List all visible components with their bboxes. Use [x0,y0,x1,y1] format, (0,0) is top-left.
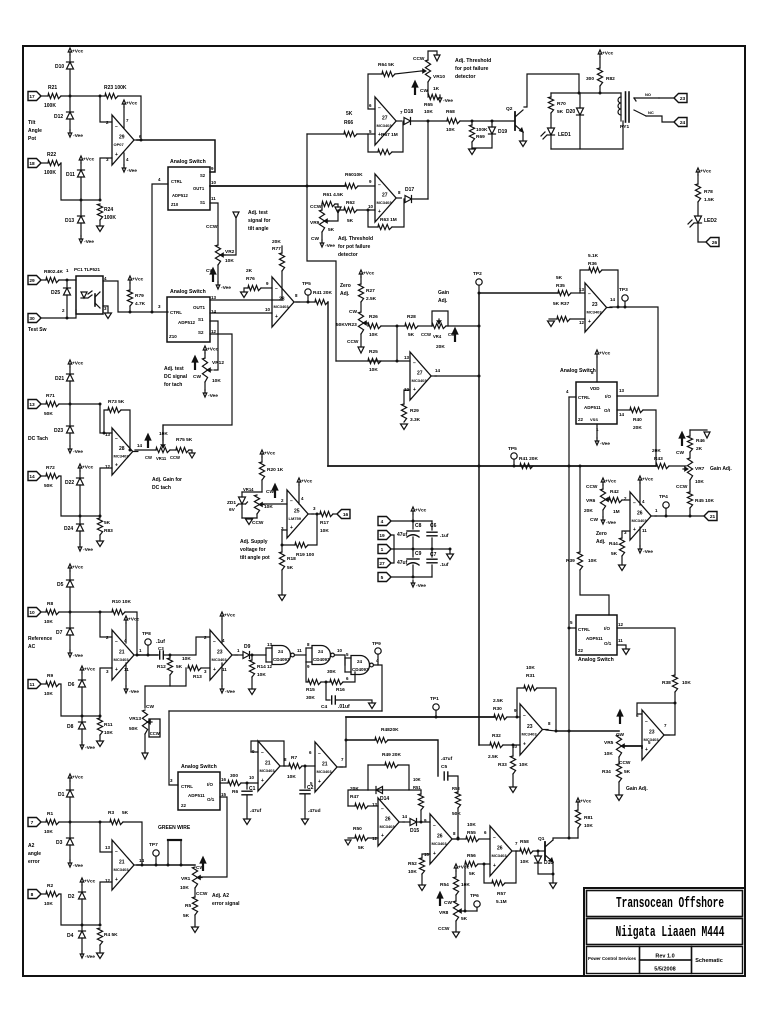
svg-text:10: 10 [29,610,35,616]
diode D12 [54,112,74,120]
label CCW VR10 [413,56,425,62]
svg-text:−: − [213,639,216,645]
op-amp 23 MC3403 a [512,704,551,755]
opto transistor [95,292,100,308]
resistor R35 [556,275,571,296]
svg-text:+: + [413,387,416,393]
svg-text:O/1: O/1 [604,641,612,646]
title text Niigata Liaaen M444 [616,924,725,941]
wire R37 to pin12 [570,318,585,320]
wire R60 to pin9 [358,185,375,187]
svg-text:D2: D2 [68,894,75,900]
svg-text:12: 12 [618,622,624,627]
wire R69 stem [471,121,473,125]
junction R82 rail [599,92,602,95]
svg-text:R75 5K: R75 5K [176,437,193,443]
svg-text:R7: R7 [291,755,297,761]
svg-text:10K: 10K [604,751,613,757]
svg-text:GREEN WIRE: GREEN WIRE [158,825,191,831]
rail VR14 bottom [242,517,257,519]
svg-text:CW: CW [145,455,152,460]
resistor R23 [104,85,127,99]
op-amp 26 MC3403 right [624,492,658,540]
label CW VR1 [196,865,204,871]
svg-text:−: − [115,849,118,855]
wire VR13 gnd [144,734,146,752]
wire C2 gnd [304,794,306,818]
svg-text:Adj. Threshold: Adj. Threshold [338,236,373,242]
svg-text:C3: C3 [158,646,164,651]
diode D10 [55,62,74,70]
wire D22 bottom [79,485,81,516]
svg-text:13: 13 [29,402,35,408]
wire D5 stem [69,571,71,580]
svg-text:+Vcc: +Vcc [72,49,84,55]
svg-text:R21: R21 [48,85,57,91]
svg-text:CTRL: CTRL [181,784,193,789]
svg-text:ADP512: ADP512 [178,320,196,325]
resistor R34 [602,764,631,782]
title row 2 box [587,919,743,945]
svg-text:22: 22 [181,803,187,808]
svg-text:47uf: 47uf [397,560,408,566]
label CW VR10 [420,88,428,94]
svg-text:Zero: Zero [340,283,351,289]
connector 10 [28,608,41,617]
junction bus TP2v [478,465,481,468]
svg-text:14: 14 [435,368,441,373]
wire conn19 stub [391,535,394,549]
wire R10 loop [100,611,112,613]
connector 27 [378,559,391,568]
junction Q2 rail [578,92,581,95]
wire R75 gnd [189,450,192,452]
junction R14 [251,654,254,657]
wire Q1 emitter [552,862,554,882]
capacitor C3 .1uf [156,639,165,659]
op-amp 23 MC3403 br [636,710,670,760]
wire R83 gnd [99,535,101,541]
junction D25 bottom [66,317,69,320]
svg-text:-Vee: -Vee [73,863,83,869]
junction C8 top [412,520,415,523]
svg-text:MC3403: MC3403 [317,769,333,774]
wire C6 bottom [431,538,433,549]
op-amp 21 MC3403 c [252,741,287,791]
wire OUT1b to pin10 [210,312,272,314]
svg-text:MC3403: MC3403 [632,518,648,523]
title cell company [587,947,640,974]
svg-text:1: 1 [381,547,384,553]
svg-text:−: − [115,436,118,442]
svg-text:21: 21 [322,762,328,768]
resistor R55 [466,822,479,842]
wire R54 stem [455,871,457,877]
svg-text:DC signal: DC signal [164,374,188,380]
resistor R66 [344,111,357,137]
wire R55 to pin6 [479,838,490,840]
node R11 row [99,715,102,718]
ground R34 [616,795,623,801]
svg-text:10K: 10K [520,859,529,865]
resistor R48 [375,727,399,743]
svg-text:+: + [523,742,526,748]
LED LED2 [695,216,718,224]
svg-text:R36: R36 [588,261,597,267]
wire R17 to conn16 [333,513,337,515]
svg-text:-Vee: -Vee [83,547,93,553]
node A2 tap [99,821,102,824]
svg-text:R2: R2 [47,883,53,889]
wire R47 from pot [348,790,368,806]
svg-text:R34: R34 [602,769,611,775]
svg-text:R11: R11 [104,722,113,728]
LED1 arrows [541,132,547,139]
junction R48 row [345,739,348,742]
svg-text:−: − [115,639,118,645]
power -Vee VR9 [320,240,335,249]
resistor R2 [44,883,59,907]
power -Vee D3 [68,860,83,869]
label tilt angle pot [28,120,42,142]
svg-text:Niigata Liaaen M444: Niigata Liaaen M444 [616,924,725,941]
wire R70 stem [550,93,552,97]
cw arrow VR10 [412,81,418,95]
label CW VR14 [266,489,274,495]
svg-text:R6010K: R6010K [345,172,363,178]
svg-text:11: 11 [29,682,34,688]
long wire 711 [169,710,382,712]
connector 5 [378,573,391,582]
ground C2 [302,819,309,825]
resistor R51 [413,777,424,810]
wire gnd arm [449,549,451,553]
resistor R32 [488,733,503,760]
wire D24 stem [79,516,81,524]
connector 17 [28,92,41,101]
node feedback out [140,139,143,142]
LED2 arrows [688,220,694,227]
wire R77 bottom [281,271,283,300]
svg-text:OP07: OP07 [114,142,125,147]
wire R49 right [398,765,409,790]
svg-text:+: + [433,851,436,857]
wire D1 bottom [69,797,71,822]
svg-text:MC3403: MC3403 [644,737,660,742]
pin labels ADP511 br [618,622,624,643]
svg-text:R43: R43 [654,456,663,462]
wire R47 to pin13 [368,805,378,807]
power +Vcc R20 [260,450,275,457]
cw arrow VR11 [145,434,151,448]
power -Vee VR6 [601,517,616,526]
ground C1 [244,819,251,825]
cw arrow VR14 [272,484,278,498]
svg-text:14: 14 [402,814,408,819]
svg-text:tilt angle pot: tilt angle pot [240,555,270,561]
ground C4 [369,703,376,709]
connector 16 [337,510,350,519]
label CW VR5 [616,732,624,738]
connector 14 [28,472,41,481]
wire TP1 stem [435,710,437,717]
svg-text:12: 12 [579,320,585,325]
power -Vee D4 [80,951,95,960]
wire R39 to box [580,570,609,615]
svg-text:20K: 20K [272,239,281,245]
ground Q2 [520,141,527,147]
wire C1 gnd [246,795,248,818]
wire VR6 bottom [602,510,604,517]
label CCW VR8 [438,926,450,932]
svg-text:+Vcc: +Vcc [72,361,84,367]
svg-text:+: + [275,314,278,320]
wire D14 row [368,789,421,791]
svg-text:+: + [645,747,648,753]
svg-text:-Vee: -Vee [129,689,139,695]
svg-text:50K: 50K [452,811,461,817]
svg-text:.1uf: .1uf [440,562,449,568]
label CCW VR5 [619,760,631,766]
connector 30 [28,314,41,323]
wire R40 down to bus [643,410,656,466]
ground R5 [192,927,199,933]
svg-text:5K: 5K [557,109,564,115]
wire VR7 to R45 [689,480,691,492]
wiper triangle VR10 [434,55,440,61]
svg-text:26: 26 [637,511,643,517]
svg-text:CW: CW [444,900,452,906]
connector 19 [378,531,391,540]
resistor R44 [609,538,625,557]
connector 18 [28,159,41,168]
svg-text:+Vcc: +Vcc [82,465,94,471]
svg-text:2K: 2K [696,446,703,452]
potentiometer VR14 [243,487,273,514]
svg-text:O/1: O/1 [207,797,215,802]
svg-text:-Vee: -Vee [600,441,610,447]
svg-text:10K: 10K [320,528,329,534]
label CW VR13 [146,704,154,710]
wire VR2 bottom [217,265,219,282]
svg-text:TP7: TP7 [149,842,158,848]
op-amp 21 MC3403 a2 [105,840,145,890]
wire vee U29 [123,153,125,165]
junction ctrl tie [151,311,154,314]
svg-text:R12: R12 [157,664,166,670]
wire R76 gnd [244,288,248,291]
node R83 row [99,515,102,518]
svg-text:D24: D24 [64,526,73,532]
svg-text:R5: R5 [185,903,191,909]
wire D21 stem [69,367,71,374]
svg-text:Gain: Gain [438,290,449,296]
svg-text:-Vee: -Vee [416,583,426,589]
svg-text:5K: 5K [104,520,111,526]
svg-text:-Vee: -Vee [73,449,83,455]
svg-text:R57: R57 [497,891,506,897]
diode D13 [65,216,85,224]
wire Q2 emitter gnd [522,132,524,140]
svg-text:10K: 10K [44,901,53,907]
wire TP5 stem [307,295,309,302]
svg-text:Transocean Offshore: Transocean Offshore [616,895,724,912]
svg-text:R802.4K: R802.4K [44,269,63,275]
svg-text:5K: 5K [287,565,294,571]
opto LED [81,291,92,298]
junction C1 [246,782,249,785]
svg-text:+Vcc: +Vcc [700,169,712,175]
svg-text:+Vcc: +Vcc [264,451,276,457]
svg-text:angle: angle [28,851,41,857]
svg-text:−: − [381,806,384,812]
svg-text:D4: D4 [67,933,74,939]
svg-text:C4: C4 [321,704,327,710]
svg-text:R50: R50 [353,826,362,832]
svg-text:MC3403: MC3403 [522,732,538,737]
relay RY1 coil [618,92,629,130]
wire U23m out [235,654,243,656]
power +Vcc R79 [128,276,143,283]
svg-text:for pot failure: for pot failure [338,244,370,250]
svg-text:24: 24 [318,649,324,654]
svg-text:R41 20K: R41 20K [519,456,538,462]
wire NAND3 in [344,658,346,672]
resistor R8 [44,601,59,625]
labels VR11 [145,455,180,461]
wire D8 stem [81,716,83,722]
svg-text:CCW: CCW [170,455,180,460]
resistor R15 [306,679,321,701]
wire ctrl pin4 [152,184,168,312]
NAND1 in stubs [266,648,272,662]
capacitor C2 .47uf [300,785,314,794]
wire ZD1 stem [241,492,243,497]
wire R82 to rail [599,86,601,93]
svg-text:5K: 5K [408,332,415,338]
wire conn1 row [391,548,450,550]
diode D4 [67,931,86,939]
analog switch 2 ADP512 [167,289,210,342]
resistor R52 [408,858,425,875]
svg-text:−: − [378,105,381,111]
node D2 row [81,924,84,927]
svg-text:+: + [115,462,118,468]
svg-text:CCW: CCW [206,224,218,230]
wire R43 to VR7 [669,465,686,467]
svg-text:−: − [645,719,648,725]
svg-text:MC3403: MC3403 [212,657,228,662]
resistor R42 [609,489,622,515]
svg-text:22: 22 [578,648,584,653]
wire TP2 vertical [478,293,480,745]
svg-text:10K: 10K [180,885,189,891]
wire D19 stem [491,121,493,127]
svg-text:23: 23 [217,650,223,656]
wire 23a output [546,730,556,731]
power -Vee D7 [68,650,83,659]
resistor R57 [492,880,507,905]
resistor R9 [44,673,59,697]
wire R14 stem [251,655,253,660]
power +Vcc U25 [297,478,312,485]
diode D6 [68,680,86,688]
svg-text:R26: R26 [369,314,378,320]
svg-text:−: − [493,835,496,841]
label CCW VR23 [347,339,359,345]
svg-text:R22: R22 [47,152,56,158]
resistor R11 [97,718,113,736]
svg-text:R42: R42 [610,489,619,495]
svg-text:R69: R69 [476,134,485,140]
svg-text:10K: 10K [461,882,470,888]
wire U26 output [655,515,704,517]
svg-text:CW: CW [311,236,319,242]
label CW VR7 [676,450,684,456]
cw arrow VR4 [452,328,458,342]
svg-text:O/I: O/I [604,408,610,413]
junction R69 [471,120,474,123]
node D22 row [79,515,82,518]
svg-text:+Vcc: +Vcc [602,51,614,57]
svg-text:20K: 20K [652,448,661,454]
resistor R33 [498,756,528,774]
svg-text:.01uf: .01uf [338,704,350,710]
potentiometer VR6 [584,489,610,514]
svg-text:TP3: TP3 [619,287,628,293]
svg-text:VR1: VR1 [181,876,191,882]
svg-text:CD4093: CD4093 [313,657,330,662]
svg-text:R9: R9 [47,673,53,679]
title row 1 box [587,891,743,917]
svg-text:27: 27 [382,193,388,199]
svg-text:OUT1: OUT1 [193,305,205,310]
label C3 [158,646,164,651]
svg-text:19: 19 [379,533,385,539]
wire out to loop [664,703,675,735]
svg-text:Adj. test: Adj. test [164,366,184,372]
wire row to pin3r [100,668,112,716]
svg-text:R73 5K: R73 5K [108,399,125,405]
node ref tap [99,611,102,614]
junction D18 out [427,120,430,123]
wire R24 gnd [99,220,101,226]
wire R51 chain [420,790,422,794]
potentiometer VR1 [180,867,202,891]
svg-text:−: − [378,182,381,188]
svg-text:11: 11 [124,667,129,672]
wire C8 stem [412,521,414,529]
svg-text:R18: R18 [287,556,296,562]
wire TP9 stem [377,654,379,665]
wire S1 to VR2 [210,203,218,245]
svg-text:26: 26 [712,240,718,246]
svg-text:R54: R54 [440,882,449,888]
svg-text:VR6: VR6 [586,498,596,504]
svg-text:11: 11 [222,667,227,672]
ground R24 [97,226,104,232]
diode D15 [410,819,419,835]
power -Vee U23m [220,686,235,695]
connector 1 [378,545,391,554]
svg-text:R68: R68 [446,109,455,115]
svg-text:1K: 1K [433,86,440,92]
wire C8 bottom [412,537,414,549]
ground opto [105,313,112,319]
svg-text:OUT1: OUT1 [193,186,205,191]
resistor R28 [405,314,418,338]
svg-text:−: − [275,286,278,292]
